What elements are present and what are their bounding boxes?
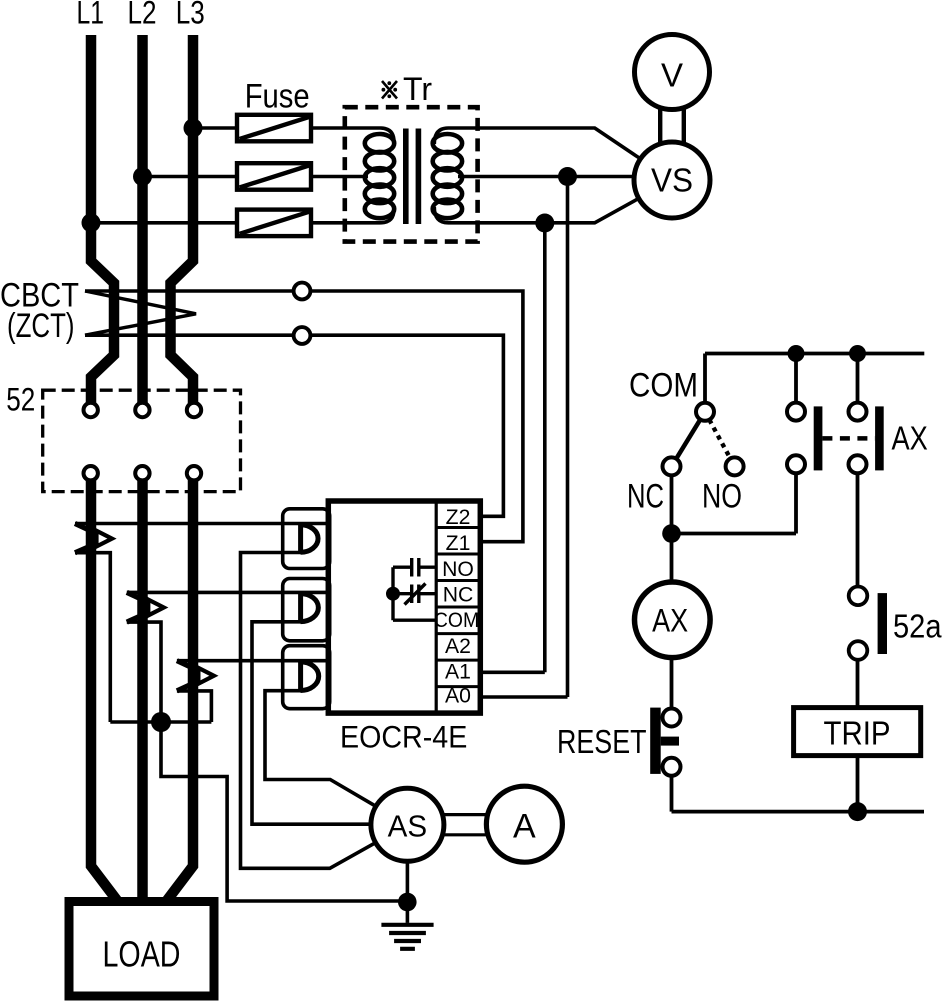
transformer Tr secondary coil (433, 134, 462, 218)
transformer Tr dashed box (345, 107, 478, 241)
wire Tr secondary middle to VS (458, 175, 672, 179)
junction dot L2-fuse2 (133, 167, 152, 186)
CBCT winding zigzag (85, 291, 196, 335)
contact AX bar left (814, 406, 823, 470)
voltmeter V (635, 35, 710, 110)
svg-text:Z1: Z1 (446, 532, 471, 555)
svg-text:52a: 52a (893, 608, 942, 645)
junction dot earth (398, 893, 417, 912)
svg-text:NC: NC (627, 478, 664, 516)
svg-text:NO: NO (442, 558, 474, 581)
wire control top bus (705, 352, 924, 356)
wire L2 tap to fuse 2 and Tr middle (143, 175, 369, 179)
svg-text:NC: NC (443, 584, 474, 607)
terminal circle COM (696, 403, 714, 421)
wire L1 through CT1 (75, 522, 328, 526)
zigzag pass-through L3 (177, 661, 214, 691)
fuse F2 (237, 163, 311, 190)
ammeter A (486, 786, 562, 862)
terminal circle CBCT upper (294, 283, 311, 300)
wire CBCT secondary upper to Z1 (85, 291, 523, 542)
svg-text:LOAD: LOAD (103, 934, 181, 975)
svg-text:Fuse: Fuse (245, 78, 310, 116)
CT window CT2 (283, 579, 330, 641)
zigzag pass-through L1 (75, 524, 112, 553)
wire right branch middle (856, 464, 860, 596)
relay EOCR-4E body (328, 501, 480, 713)
wire L3 phase line upper (with CBCT jog) (171, 35, 194, 404)
wire AX-contact branch joining (672, 532, 797, 536)
pushbutton RESET actuator (650, 708, 679, 774)
svg-text:COM: COM (629, 367, 698, 405)
contact 52a bar (878, 593, 887, 654)
wire TRIP to bottom bus (856, 756, 860, 812)
svg-text:A0: A0 (445, 685, 471, 708)
wire AS to earth (406, 861, 410, 923)
svg-text:AX: AX (652, 602, 688, 638)
wire L1 phase line upper (with CBCT jog) (91, 35, 114, 404)
internal output contact wiring (393, 567, 436, 620)
zigzag pass-through L2 (127, 592, 164, 622)
terminal circle NC (663, 457, 681, 475)
wire V to VS double link (660, 108, 684, 143)
svg-text:TRIP: TRIP (824, 716, 891, 753)
internal NC contact (405, 584, 426, 605)
wire A0 tap vertical (480, 177, 567, 698)
wire AX coil to RESET (670, 657, 674, 718)
wire L3 through CT3 (177, 659, 328, 663)
wire CT3 exit to AS upper input (265, 691, 407, 825)
wire common return bus (110, 720, 211, 724)
junction dot L1-fuse3 (82, 213, 101, 232)
wire right branch upper (856, 354, 860, 412)
wire L2 phase line upper (137, 35, 148, 404)
breaker 52 dashed box (43, 390, 241, 491)
svg-text:AS: AS (388, 809, 428, 843)
svg-text:RESET: RESET (557, 723, 647, 760)
fuse F1 (237, 115, 311, 142)
svg-text:Tr: Tr (403, 71, 432, 107)
svg-text:A1: A1 (445, 660, 471, 683)
wire L2 phase line lower (137, 480, 148, 901)
junction dot A0 tap (558, 167, 577, 186)
ground (381, 925, 433, 949)
junction dot NC node (662, 524, 681, 543)
wire AS to A double link (444, 815, 488, 835)
svg-text:A: A (513, 808, 536, 846)
wire L3 tap to fuse 1 and Tr top (193, 128, 394, 142)
terminal circles AX contact left pole (787, 403, 805, 474)
wire L1 tap to fuse 3 and Tr bottom (91, 209, 394, 223)
svg-text:Z2: Z2 (446, 506, 471, 529)
wire Tr secondary bottom to VS (434, 180, 672, 223)
wire AX coil drop (670, 534, 674, 583)
junction dot top bus right (849, 345, 866, 362)
wire common bus to earth (161, 722, 407, 901)
voltmeter selector VS (634, 142, 710, 218)
transformer Tr primary coil (365, 134, 394, 218)
terminal cell dividers (436, 528, 480, 687)
svg-text:COM: COM (434, 609, 479, 632)
wire 52a to TRIP (856, 651, 860, 708)
wire L2 return to common bus (127, 622, 161, 722)
transformer Tr core (403, 129, 421, 225)
svg-text:VS: VS (651, 162, 693, 199)
contact AX bar right (875, 406, 884, 470)
wire A1 tap vertical (480, 223, 545, 672)
wire L2 through CT2 (127, 591, 328, 595)
junction dot top bus mid (788, 345, 805, 362)
junction dot L3-fuse1 (184, 119, 203, 138)
CT window CT3 (283, 646, 330, 709)
relay coil AX (635, 582, 711, 658)
wire L1 phase line lower (52 to LOAD) (91, 480, 118, 901)
wire L3 return to common bus (177, 691, 212, 722)
label reference mark (kome) (382, 81, 398, 99)
svg-text:L3: L3 (176, 0, 205, 31)
wire control bottom bus (672, 810, 925, 814)
CT window CT1 (283, 509, 330, 569)
junction dot bottom bus (848, 802, 867, 821)
svg-text:NO: NO (702, 478, 742, 516)
contact AX mechanical link (dashed) (822, 436, 875, 441)
svg-text:AX: AX (892, 419, 928, 456)
wire selector COM-NC (closed) (672, 412, 706, 467)
wire NC drop to node (670, 466, 674, 533)
terminal circle CBCT lower (294, 327, 311, 344)
terminal circles RESET button (663, 709, 681, 776)
terminal circles AX contact right pole (849, 403, 867, 474)
internal NO contact (412, 558, 419, 577)
terminal strip divider (435, 501, 438, 713)
junction dot internal COM (386, 587, 400, 601)
wire selector COM-NO (dotted) (705, 412, 735, 467)
ammeter selector AS (371, 788, 444, 861)
breaker 52 terminal circles top row (84, 403, 202, 417)
load box (69, 902, 214, 997)
wire COM drop (703, 354, 707, 412)
wire Tr secondary top to VS (434, 128, 672, 180)
relay TRIP box (794, 708, 921, 756)
wire mid branch lower (794, 464, 798, 533)
junction dot common bus (151, 712, 171, 732)
wire L3 phase line lower (52 to LOAD) (167, 480, 194, 901)
svg-text:L1: L1 (77, 0, 105, 31)
breaker 52 terminal circles bottom row (84, 466, 202, 480)
svg-text:(ZCT): (ZCT) (7, 307, 75, 345)
terminal circle NO (726, 457, 744, 475)
svg-text:V: V (661, 57, 683, 94)
wire L1 return to common bus (75, 553, 110, 722)
svg-text:52: 52 (6, 382, 35, 418)
wire CT1 exit to AS lower input (241, 553, 408, 869)
fuse F3 (237, 210, 311, 237)
wire RESET to bottom bus (670, 768, 674, 812)
wire CT2 exit to AS middle input (252, 622, 407, 824)
wire mid branch upper (794, 354, 798, 412)
svg-text:L2: L2 (128, 0, 157, 31)
wire CBCT secondary lower to Z2 (85, 335, 503, 516)
svg-text:EOCR-4E: EOCR-4E (340, 719, 467, 755)
junction dot A1 tap (535, 214, 554, 233)
svg-text:A2: A2 (445, 635, 471, 658)
terminal circles 52a (849, 587, 868, 660)
